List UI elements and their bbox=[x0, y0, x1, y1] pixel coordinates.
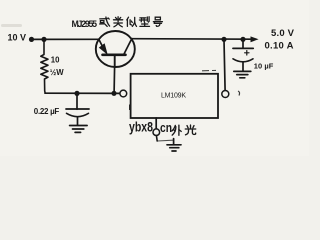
ground (LM109 case) bbox=[167, 145, 181, 151]
ground (C2) bbox=[234, 71, 251, 77]
pin circle: LM109 IN (left) bbox=[120, 90, 127, 97]
svg-text:10 µF: 10 µF bbox=[254, 62, 274, 71]
watermark CJK wai guang (drawn as paths) bbox=[172, 125, 196, 135]
node junction J5 (Q1 base tap) bbox=[111, 91, 116, 96]
node junction J3 (output/C2) bbox=[240, 37, 245, 42]
char xing bbox=[140, 17, 146, 19]
node junction J2 (output/LM109 OUT) bbox=[221, 37, 226, 42]
char si bbox=[126, 20, 128, 27]
resistor R1 10 ohm (zigzag) bbox=[41, 42, 48, 94]
regulator U1 LM109K box bbox=[131, 74, 218, 118]
wire: Q1 base down to mid wire bbox=[113, 67, 116, 93]
node junction J4 (C1 tap) bbox=[74, 91, 79, 96]
svg-text:MJ2955: MJ2955 bbox=[72, 19, 98, 29]
char guang bbox=[190, 125, 192, 128]
output terminal arrow bbox=[251, 36, 259, 42]
svg-text:½W: ½W bbox=[50, 68, 65, 77]
char huo bbox=[100, 18, 107, 20]
wire: GND pin circle to offset ground symbol bbox=[155, 136, 158, 142]
svg-text:5.0 V: 5.0 V bbox=[271, 28, 295, 39]
svg-text:ybx8: ybx8 bbox=[129, 119, 153, 134]
ground (C1) bbox=[70, 126, 88, 133]
capacitor C2 10uF (output electrolytic) bbox=[233, 41, 253, 71]
svg-text:0.22 µF: 0.22 µF bbox=[34, 107, 60, 116]
char lei bbox=[117, 17, 119, 22]
pin circle: LM109 OUT (right) bbox=[222, 91, 229, 98]
wire: output node down to LM109 OUT pin bbox=[224, 40, 225, 90]
scan artifact tick below mid wire bbox=[129, 105, 131, 111]
svg-text:0.10 A: 0.10 A bbox=[265, 40, 294, 51]
label: huo lei si xing hao (or similar type, CJK drawn as paths) bbox=[100, 17, 163, 27]
transistor Q1 MJ2955 (PNP pass transistor) bbox=[96, 31, 135, 67]
pin circle: LM109 GND (bottom) bbox=[153, 129, 160, 136]
char hao bbox=[155, 17, 160, 20]
terminal input dot (10 V) bbox=[29, 37, 34, 42]
char wai bbox=[172, 125, 175, 130]
scan artifact speck near U1 right pin bbox=[238, 91, 240, 96]
svg-text:10 V: 10 V bbox=[8, 32, 27, 42]
wire: top rail left segment (input to Q1 emitter) bbox=[32, 38, 100, 40]
svg-text:LM109K: LM109K bbox=[161, 93, 187, 100]
node junction J1 (input/R1) bbox=[41, 37, 46, 42]
wire: top rail right segment (Q1 collector to output arrow) bbox=[132, 38, 252, 41]
scan artifact dash above U1 box bbox=[202, 70, 209, 72]
svg-text:cn: cn bbox=[160, 121, 172, 135]
wire: LM109 GND pin down bbox=[155, 118, 157, 129]
scan artifact streak top-left bbox=[1, 24, 22, 27]
svg-text:10: 10 bbox=[51, 56, 60, 65]
capacitor C1 0.22uF bbox=[66, 96, 89, 126]
wire: mid horizontal (R1 bottom to LM109 IN pin) bbox=[45, 92, 120, 94]
